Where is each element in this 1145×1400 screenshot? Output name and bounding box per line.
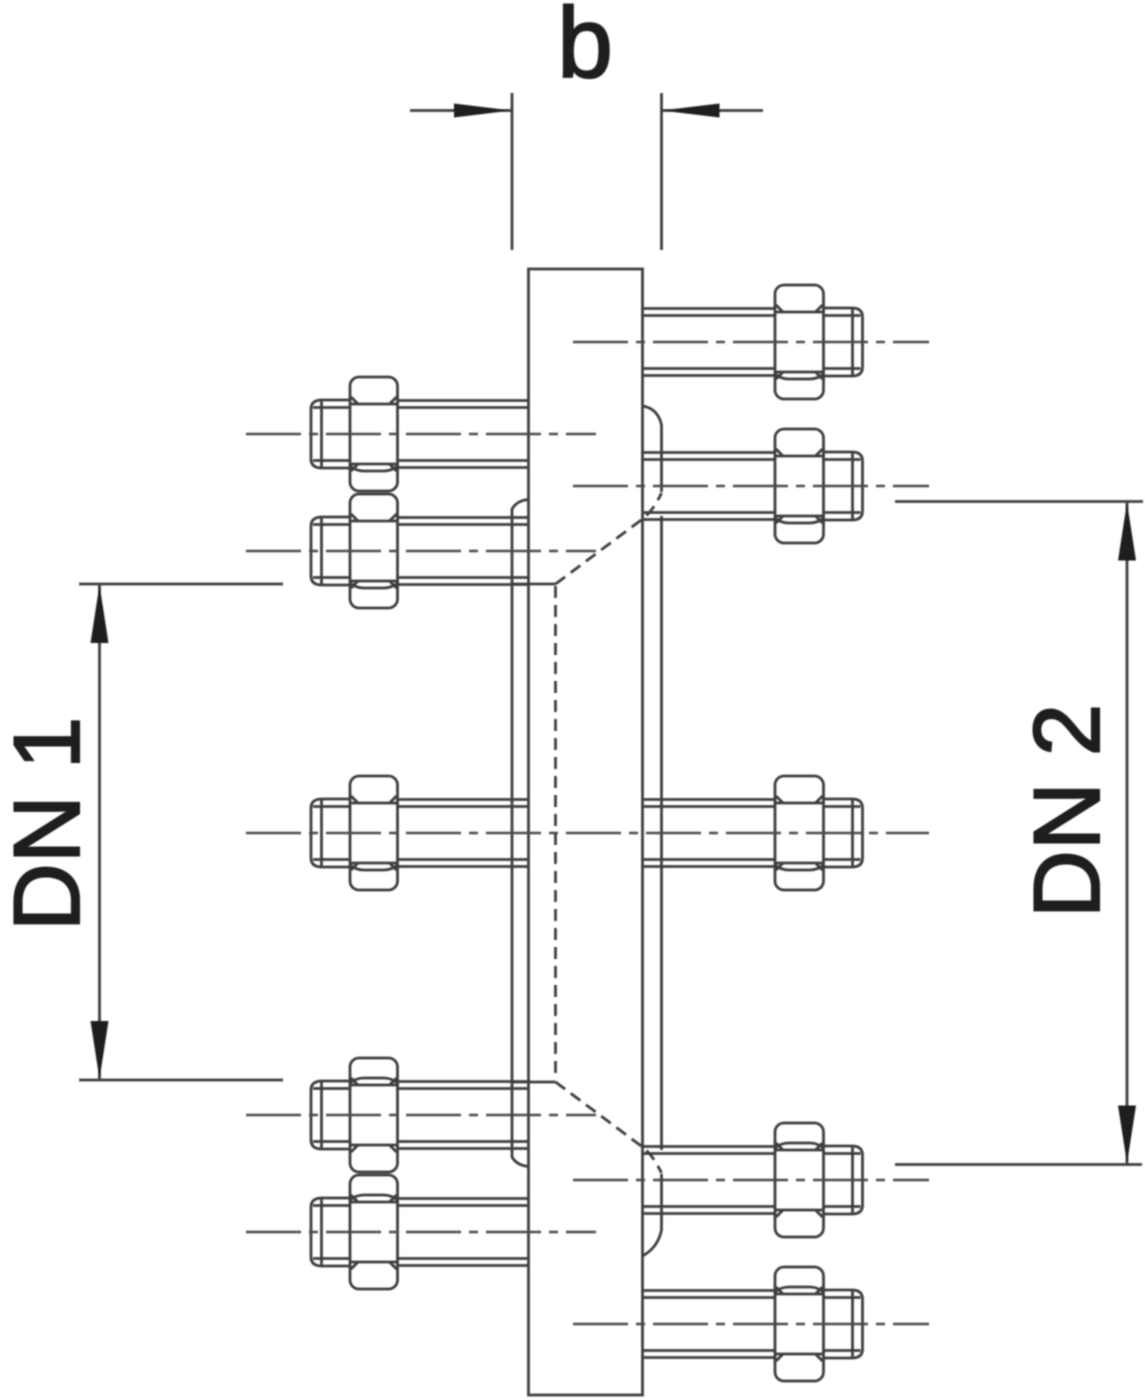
svg-text:DN 2: DN 2 bbox=[1014, 704, 1119, 918]
svg-text:b: b bbox=[557, 0, 613, 99]
svg-text:DN 1: DN 1 bbox=[0, 717, 99, 931]
